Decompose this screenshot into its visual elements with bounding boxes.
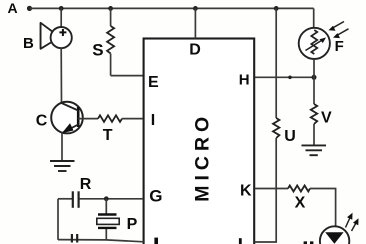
svg-text:H: H <box>239 72 250 89</box>
crystal P top lead <box>105 199 107 214</box>
bottom pin label fragment left <box>154 238 158 244</box>
resistor U label <box>284 128 296 145</box>
crystal P body <box>97 218 119 224</box>
LED label fragment <box>304 241 314 244</box>
svg-text:V: V <box>321 110 332 127</box>
transistor C base bar <box>77 107 80 127</box>
svg-text:G: G <box>149 187 162 206</box>
wire F to H node <box>313 59 315 77</box>
pin K label <box>240 183 252 200</box>
wire buzzer to transistor collector <box>60 48 62 103</box>
buzzer B plus polarity mark <box>59 29 66 36</box>
crystal P bottom plate <box>98 227 117 229</box>
node small dot on H wire <box>288 76 292 80</box>
wire R to pin G <box>80 198 144 200</box>
LDR F light arrows <box>329 22 349 39</box>
node junction H/F/V <box>312 75 317 80</box>
node A label <box>8 0 18 16</box>
resistor X label <box>295 195 306 212</box>
crystal P label <box>127 216 138 233</box>
svg-text:E: E <box>148 74 159 91</box>
LED triangle <box>325 232 343 244</box>
transistor C emitter stroke with arrow <box>62 123 78 133</box>
crystal P bottom lead <box>105 229 107 240</box>
svg-text:T: T <box>103 127 113 144</box>
resistor U <box>273 118 279 138</box>
wire X to LED <box>310 189 336 227</box>
ground (below V) <box>302 145 327 155</box>
pin G label <box>149 187 162 206</box>
wire T to pin I <box>122 118 143 120</box>
LDR F internal zigzag <box>311 30 317 54</box>
transistor C collector stroke <box>62 103 79 111</box>
buzzer B label <box>23 35 34 52</box>
capacitor R plates <box>73 191 79 208</box>
pin I label <box>151 112 155 129</box>
wire top rail corner down to LDR F <box>313 8 315 27</box>
wire bottom rail to box <box>58 240 144 242</box>
wire pin K to X <box>255 188 288 190</box>
capacitor (bottom, unlabeled) plates <box>72 234 77 243</box>
crystal P top plate <box>98 213 117 215</box>
wire pin H to F/V node <box>255 76 314 78</box>
wire U down to bottom pin <box>255 138 277 242</box>
wire emitter to ground <box>61 133 63 162</box>
svg-text:C: C <box>36 113 48 130</box>
micro box label MICRO <box>192 112 214 202</box>
LDR F label <box>335 38 344 55</box>
svg-text:MICRO: MICRO <box>192 112 214 202</box>
wire top rail <box>30 7 314 9</box>
resistor S label <box>92 41 103 60</box>
svg-text:K: K <box>240 183 252 200</box>
capacitor R left plate wire <box>58 198 72 200</box>
resistor X <box>288 186 310 192</box>
LDR F body circle <box>299 28 330 59</box>
node junction D on top rail <box>193 6 198 11</box>
LDR F internal arrow <box>306 38 327 51</box>
capacitor R label <box>80 176 92 193</box>
wire S to pin E <box>111 75 143 77</box>
node junction S on top rail <box>108 6 113 11</box>
wire from top rail down to buzzer B <box>60 8 62 28</box>
resistor V <box>311 77 317 145</box>
svg-text:U: U <box>284 128 296 145</box>
buzzer B horn <box>41 23 55 49</box>
resistor T <box>98 115 122 122</box>
wire top rail start terminal <box>27 6 32 11</box>
resistor T label <box>103 127 113 144</box>
node junction U on top rail <box>274 6 279 11</box>
LED body circle <box>320 226 349 244</box>
wire top rail down through H and K wires (U branch) <box>275 8 277 118</box>
transistor Q C body circle <box>51 102 83 134</box>
transistor C label <box>36 113 48 130</box>
svg-text:S: S <box>92 41 103 60</box>
node junction B on top rail <box>59 6 64 11</box>
svg-text:I: I <box>151 112 155 129</box>
bottom pin label fragment right <box>239 238 242 244</box>
svg-text:F: F <box>335 38 344 55</box>
wire top rail to pin D <box>194 8 196 38</box>
micro box <box>144 39 255 244</box>
svg-text:R: R <box>80 176 92 193</box>
resistor T wire from transistor base <box>78 118 98 120</box>
resistor S <box>107 8 114 75</box>
resistor V label <box>321 110 332 127</box>
wire left rail (R/C network) <box>57 199 59 240</box>
svg-text:D: D <box>189 42 201 59</box>
pin E label <box>148 74 159 91</box>
svg-text:B: B <box>23 35 34 52</box>
node junction G/P <box>104 196 109 201</box>
pin D label <box>189 42 201 59</box>
pin H label <box>239 72 250 89</box>
svg-text:A: A <box>8 0 18 16</box>
LED light arrows <box>346 213 359 231</box>
ground (transistor C emitter) <box>50 161 75 171</box>
buzzer B body circle <box>51 27 72 48</box>
svg-text:P: P <box>127 216 138 233</box>
svg-text:X: X <box>295 195 306 212</box>
